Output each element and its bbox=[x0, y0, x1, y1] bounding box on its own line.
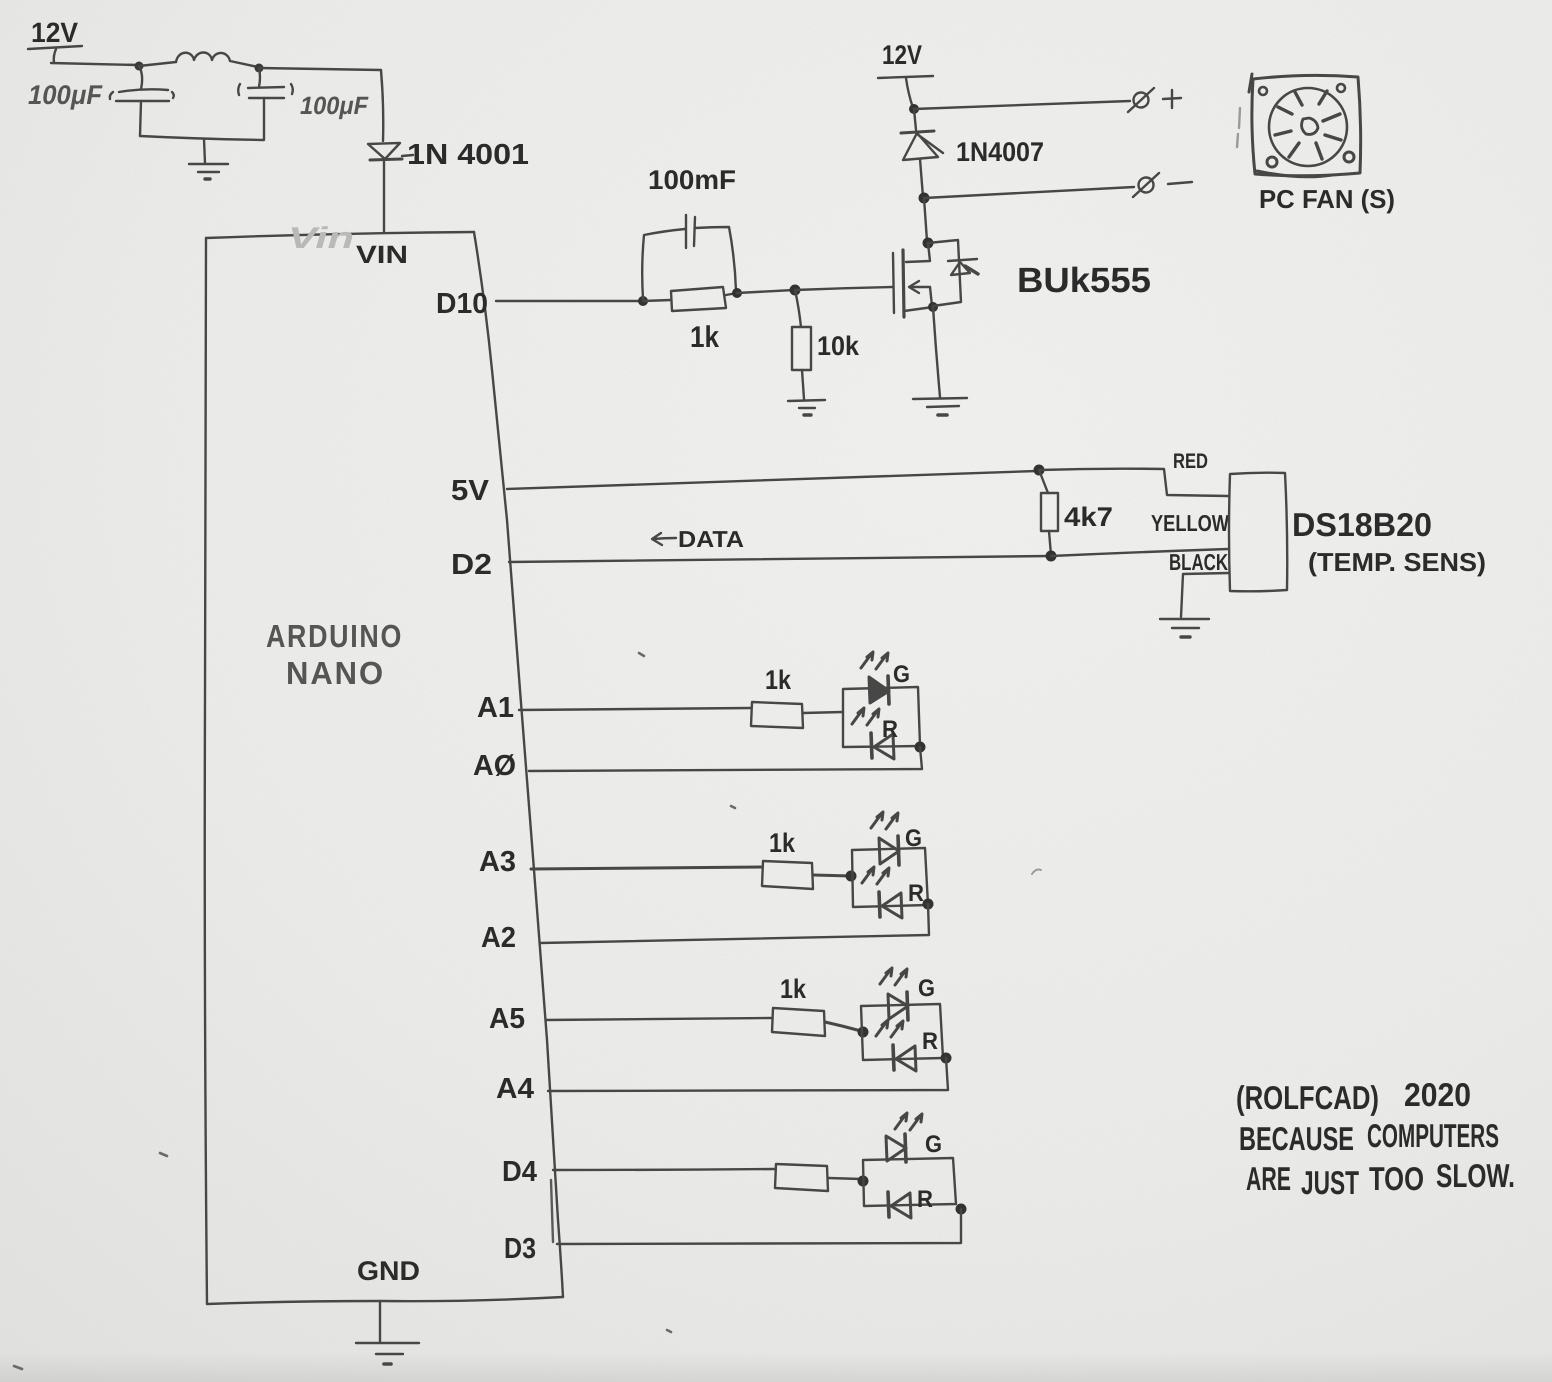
LED LED3 red diode bbox=[876, 1020, 916, 1071]
svg-text:D4: D4 bbox=[502, 1156, 537, 1188]
node junction dot 12V rail bbox=[909, 104, 919, 114]
svg-text:10k: 10k bbox=[817, 331, 860, 361]
svg-text:TOO: TOO bbox=[1369, 1160, 1424, 1197]
pin label GND bbox=[357, 1256, 420, 1286]
part label (TEMP. SENS) bbox=[1308, 547, 1486, 577]
wire R6 to LED3 bbox=[825, 1022, 861, 1031]
wire LED4 to D3 pin bbox=[557, 1209, 961, 1244]
svg-text:1N4007: 1N4007 bbox=[956, 137, 1044, 167]
wire gate node to Q1 gate bbox=[795, 287, 892, 290]
LED LED2 green diode bbox=[871, 812, 899, 865]
svg-text:A3: A3 bbox=[479, 846, 516, 878]
wire A1 pin to R4 bbox=[519, 708, 751, 710]
svg-text:1k: 1k bbox=[780, 974, 807, 1004]
node junction dot LED4 out bbox=[956, 1204, 967, 1215]
value label 1N4001 bbox=[407, 139, 529, 171]
label DATA with arrow bbox=[652, 526, 744, 552]
LED LED4 bi-colour body bbox=[863, 1158, 956, 1206]
pin label A4 bbox=[496, 1073, 534, 1105]
node junction dot Q1 source bbox=[928, 302, 938, 312]
svg-text:COMPUTERS: COMPUTERS bbox=[1367, 1117, 1499, 1154]
wire DS18B20 GND (black) bbox=[1181, 573, 1229, 617]
svg-text:12V: 12V bbox=[882, 40, 922, 70]
caption (ROLFCAD) 2020 bbox=[1236, 1076, 1471, 1116]
LED LED1 red diode bbox=[852, 708, 894, 759]
capacitor C2 lead from junction B bbox=[259, 68, 260, 87]
svg-text:BLACK: BLACK bbox=[1169, 549, 1228, 575]
svg-text:D2: D2 bbox=[451, 549, 492, 581]
svg-text:(ROLFCAD): (ROLFCAD) bbox=[1236, 1079, 1379, 1116]
svg-text:YELLOW: YELLOW bbox=[1151, 510, 1229, 536]
svg-text:G: G bbox=[893, 661, 910, 688]
label G (LED1) bbox=[893, 661, 910, 688]
resistor R7 bbox=[775, 1164, 828, 1191]
resistor R1 1k bbox=[671, 287, 726, 311]
ground GND2 bbox=[788, 400, 825, 415]
node junction dot LED3 out bbox=[941, 1053, 952, 1064]
capacitor C1 lead from junction A bbox=[139, 66, 142, 89]
node junction dot Q1 drain bbox=[923, 238, 934, 249]
diode D2 1N4007 bbox=[901, 109, 943, 197]
node junction dot A (12V / C1) bbox=[135, 62, 144, 71]
wire label BLACK bbox=[1169, 549, 1228, 575]
wire R3 top lead bbox=[1039, 470, 1048, 493]
wire C1/C2 bottoms to ground tap bbox=[140, 136, 264, 140]
svg-text:5V: 5V bbox=[451, 475, 490, 507]
value label 1k (R1) bbox=[690, 321, 719, 354]
svg-text:100μF: 100μF bbox=[28, 80, 103, 110]
resistor R4 1k bbox=[751, 702, 803, 728]
resistor R6 1k bbox=[772, 1008, 825, 1036]
node 12V supply terminal bbox=[28, 17, 82, 63]
wire D10 pin to RC node bbox=[496, 300, 641, 302]
svg-text:G: G bbox=[918, 975, 935, 1002]
wire R7 to LED4 bbox=[828, 1178, 861, 1179]
svg-text:100μF: 100μF bbox=[300, 92, 369, 120]
node junction dot 5V/4k7 bbox=[1034, 465, 1045, 476]
edge doubling stroke on U1 right side bbox=[551, 1180, 553, 1242]
capacitor C3 100mF bbox=[686, 215, 695, 248]
node junction dot D10/RC left bbox=[638, 296, 648, 306]
svg-text:SLOW.: SLOW. bbox=[1436, 1157, 1515, 1194]
pin label A3 bbox=[479, 846, 516, 878]
pin label VIN bbox=[356, 241, 408, 269]
part label DS18B20 bbox=[1292, 506, 1432, 543]
ground GND5 bbox=[356, 1343, 419, 1364]
caption ARE JUST TOO SLOW. bbox=[1246, 1157, 1515, 1201]
svg-text:(TEMP. SENS): (TEMP. SENS) bbox=[1308, 547, 1486, 577]
wire D2 pin to 4k7 node (data) bbox=[509, 556, 1050, 562]
inductor L1 bbox=[176, 53, 258, 68]
pin label A0 bbox=[473, 750, 516, 782]
LED LED2 red diode bbox=[862, 867, 902, 918]
LED LED2 bi-colour body bbox=[852, 848, 928, 907]
svg-text:100mF: 100mF bbox=[648, 165, 736, 195]
node junction dot LED2 in bbox=[846, 871, 857, 882]
svg-text:D10: D10 bbox=[436, 288, 488, 320]
transistor Q1 BUK555 bbox=[893, 243, 933, 317]
value label 100mF (C3) bbox=[648, 165, 736, 195]
label R (LED4) bbox=[917, 1186, 933, 1213]
chip label ARDUINO NANO bbox=[266, 618, 403, 691]
wire R5 to LED2 bbox=[813, 875, 851, 876]
wire R2 bottom lead bbox=[802, 370, 804, 399]
svg-text:R: R bbox=[882, 716, 898, 743]
wire D4 pin to R7 bbox=[553, 1169, 775, 1170]
label G (LED3) bbox=[918, 975, 935, 1002]
wire R3 bottom lead bbox=[1049, 531, 1051, 555]
wire R2 top lead bbox=[795, 290, 801, 327]
value label 1k (R6) bbox=[780, 974, 807, 1004]
node junction dot minus rail bbox=[919, 193, 930, 204]
pin label A2 bbox=[481, 922, 516, 954]
svg-text:G: G bbox=[905, 825, 922, 852]
wire LED3 to A4 pin bbox=[548, 1058, 948, 1091]
LED LED4 red diode bbox=[888, 1192, 911, 1218]
label PC FAN (S) bbox=[1259, 184, 1395, 214]
wire Q1 body-diode branch bbox=[928, 240, 961, 306]
svg-text:R: R bbox=[922, 1028, 938, 1055]
svg-text:VIN: VIN bbox=[356, 241, 408, 269]
ground GND4 bbox=[1160, 619, 1209, 637]
wire R4 to LED1 bbox=[803, 712, 843, 713]
node junction dot B (L1 / C2) bbox=[255, 64, 264, 73]
capacitor C1 100uF bbox=[110, 89, 174, 136]
svg-text:2020: 2020 bbox=[1404, 1076, 1471, 1113]
pin label D4 bbox=[502, 1156, 537, 1188]
node junction dot D2/4k7 bbox=[1046, 551, 1057, 562]
svg-text:A2: A2 bbox=[481, 922, 516, 954]
wire junction B to diode D1 branch bbox=[259, 68, 383, 141]
wire D1 to VIN bbox=[383, 161, 385, 233]
Arduino Nano U1 body bbox=[205, 232, 563, 1304]
wire minus node to Q1 drain bbox=[924, 198, 927, 241]
value label 1k (R5) bbox=[769, 828, 796, 858]
wire C3 left branch up bbox=[642, 229, 685, 299]
node minus terminal bbox=[1133, 173, 1192, 197]
node junction dot gate/10k bbox=[790, 285, 801, 296]
LED LED3 green diode bbox=[880, 968, 908, 1020]
value label 100uF (C2) bbox=[300, 92, 369, 120]
svg-text:PC FAN (S): PC FAN (S) bbox=[1259, 184, 1395, 214]
resistor R5 1k bbox=[762, 861, 813, 889]
label G (LED2) bbox=[905, 825, 922, 852]
svg-text:R: R bbox=[908, 880, 924, 907]
diode body diode of Q1 bbox=[948, 259, 978, 275]
label G (LED4) bbox=[925, 1131, 942, 1158]
stray mark left of fan bbox=[1237, 108, 1240, 147]
svg-text:DS18B20: DS18B20 bbox=[1292, 506, 1432, 543]
wire minus rail to minus terminal bbox=[924, 187, 1134, 198]
value label 1N4007 bbox=[956, 137, 1044, 167]
svg-text:DATA: DATA bbox=[678, 526, 744, 552]
stray pencil specks bbox=[14, 653, 1041, 1369]
node junction dot LED2 out bbox=[923, 899, 934, 910]
pin label A1 bbox=[477, 692, 514, 724]
label R (LED3) bbox=[922, 1028, 938, 1055]
PC fan icon bbox=[1249, 74, 1361, 177]
wire C3 right branch down bbox=[695, 227, 736, 291]
svg-text:A5: A5 bbox=[489, 1003, 525, 1035]
svg-text:1k: 1k bbox=[765, 665, 792, 695]
node junction dot LED4 in bbox=[858, 1176, 869, 1187]
wire LED1 to A0 pin bbox=[529, 747, 922, 771]
wire 4k7 node to DS18B20 DQ (yellow) bbox=[1051, 549, 1228, 556]
svg-text:G: G bbox=[925, 1131, 942, 1158]
wire Q1 source to ground bbox=[933, 307, 940, 397]
wire 12V to L1 bbox=[51, 63, 138, 65]
wire LED2 to A2 pin bbox=[540, 904, 929, 943]
LED LED3 bi-colour body bbox=[861, 1004, 943, 1060]
pin label D10 bbox=[436, 288, 488, 320]
label R (LED1) bbox=[882, 716, 898, 743]
svg-text:ARE: ARE bbox=[1246, 1160, 1291, 1197]
ground GND3 bbox=[913, 398, 967, 415]
erased ghost label Vin bbox=[288, 222, 354, 255]
wire junction A to inductor bbox=[139, 62, 176, 66]
LED LED1 bi-colour body bbox=[843, 687, 920, 747]
node junction dot LED3 in bbox=[858, 1027, 869, 1038]
svg-text:BUk555: BUk555 bbox=[1017, 261, 1151, 300]
svg-text:12V: 12V bbox=[31, 17, 78, 48]
svg-text:GND: GND bbox=[357, 1256, 420, 1286]
part label BUK555 bbox=[1017, 261, 1151, 300]
wire R1 right lead to node bbox=[726, 293, 737, 295]
value label 4k7 bbox=[1064, 502, 1113, 532]
pin label 5V bbox=[451, 475, 490, 507]
caption BECAUSE COMPUTERS bbox=[1239, 1117, 1499, 1157]
LED LED1 green diode bbox=[861, 652, 889, 704]
LED LED4 green diode bbox=[886, 1113, 922, 1162]
svg-text:1N 4001: 1N 4001 bbox=[407, 139, 529, 171]
pin label D2 bbox=[451, 549, 492, 581]
svg-text:AØ: AØ bbox=[473, 750, 516, 782]
value label 1k (R4) bbox=[765, 665, 792, 695]
svg-text:R: R bbox=[917, 1186, 933, 1213]
ground GND1 bbox=[189, 139, 228, 179]
svg-text:RED: RED bbox=[1173, 450, 1208, 473]
svg-text:1k: 1k bbox=[690, 321, 719, 354]
svg-text:NANO: NANO bbox=[286, 655, 385, 691]
pin label D3 bbox=[504, 1233, 536, 1265]
wire A3 pin to R5 bbox=[531, 867, 762, 869]
svg-text:A1: A1 bbox=[477, 692, 514, 724]
wire node to gate node bbox=[737, 290, 794, 293]
wire 12V rail to plus terminal bbox=[914, 101, 1130, 109]
value label 100uF (C1) bbox=[28, 80, 103, 110]
node junction dot R1 right bbox=[732, 288, 742, 298]
node 12V fan rail terminal bbox=[878, 40, 933, 108]
pin label A5 bbox=[489, 1003, 525, 1035]
diode D1 1N4001 bbox=[368, 143, 413, 160]
capacitor C2 100uF bbox=[238, 84, 293, 139]
svg-text:BECAUSE: BECAUSE bbox=[1239, 1120, 1354, 1157]
svg-text:ARDUINO: ARDUINO bbox=[266, 618, 403, 654]
svg-text:1k: 1k bbox=[769, 828, 796, 858]
resistor R3 4k7 bbox=[1041, 493, 1058, 531]
svg-text:A4: A4 bbox=[496, 1073, 534, 1105]
node plus terminal bbox=[1128, 88, 1181, 112]
wire R1 left lead bbox=[643, 300, 671, 301]
label R (LED2) bbox=[908, 880, 924, 907]
wire label RED bbox=[1173, 450, 1208, 473]
svg-text:Vin: Vin bbox=[288, 222, 354, 255]
wire GND pin to ground bbox=[379, 1301, 381, 1342]
wire label YELLOW bbox=[1151, 510, 1229, 536]
svg-text:4k7: 4k7 bbox=[1064, 502, 1113, 532]
svg-text:JUST: JUST bbox=[1301, 1164, 1359, 1201]
wire 5V pin to 4k7 node bbox=[507, 471, 1037, 489]
wire 5V node to DS18B20 VDD (red) bbox=[1039, 469, 1228, 496]
resistor R2 10k bbox=[792, 327, 811, 370]
sensor U2 DS18B20 body bbox=[1229, 473, 1287, 592]
node junction dot LED1 out bbox=[915, 742, 926, 753]
value label 10k (R2) bbox=[817, 331, 860, 361]
wire A5 pin to R6 bbox=[546, 1018, 772, 1020]
svg-text:D3: D3 bbox=[504, 1233, 536, 1265]
